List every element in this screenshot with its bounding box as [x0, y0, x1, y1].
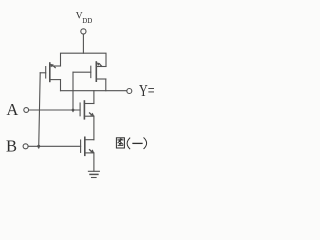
Q3 source lead [84, 115, 94, 117]
Q3 gate bar [79, 103, 81, 116]
transistor Q1 PMOS (gate=B) [40, 63, 60, 81]
svg-text:DD: DD [82, 17, 92, 25]
input A label [6, 100, 18, 119]
Q4 source lead [85, 152, 94, 154]
Q3 drain lead [84, 103, 94, 105]
wire: Q2 drain to output node [105, 79, 107, 91]
input B terminal circle [23, 144, 28, 149]
Q4 gate bar [80, 140, 82, 152]
wire: Q1 drain to output node [60, 80, 62, 91]
Q1 channel bar [49, 63, 51, 81]
wire: VDD riser [82, 34, 84, 53]
Q2 source lead [96, 66, 106, 68]
wire: A riser to Q2 gate (crosses output wire) [72, 72, 74, 111]
wire: Q4 source to ground [93, 153, 95, 171]
transistor Q3 NMOS (gate=A) [80, 91, 94, 119]
caption 图(一) [116, 138, 146, 149]
Q1 drain lead [50, 79, 61, 81]
svg-text:Y=: Y= [139, 81, 155, 100]
Q1 source arrow [50, 64, 56, 69]
transistor Q4 NMOS (gate=B) [81, 137, 95, 155]
Q2 channel bar [95, 62, 97, 81]
wire: B input to Q4 gate [28, 145, 80, 147]
Q1 source lead [50, 65, 61, 67]
label Y= [139, 81, 155, 100]
Q2 source arrow [97, 63, 103, 68]
output terminal circle [127, 89, 132, 94]
Q2 drain lead [96, 78, 106, 80]
wire: Q3 source to Q4 drain [93, 116, 95, 140]
Q3 source arrow [89, 112, 95, 116]
wire: output node Y [61, 90, 127, 92]
Q4 channel bar [84, 137, 86, 155]
Q3 drain riser to output [93, 91, 95, 104]
Q4 source arrow [89, 149, 95, 153]
Q1 gate lead [40, 72, 46, 74]
input A terminal circle [24, 108, 29, 113]
ground [88, 171, 99, 177]
svg-text:A: A [6, 100, 18, 119]
wire: A input to Q3 gate [29, 109, 80, 111]
input B label [6, 137, 17, 156]
Q4 drain lead [85, 139, 94, 141]
svg-text:B: B [6, 137, 17, 156]
Q3 channel bar [83, 101, 85, 119]
Q2 gate lead [73, 71, 91, 73]
Q2 gate bar [90, 66, 92, 77]
node: A junction dot [72, 109, 75, 112]
node: B junction dot [37, 145, 40, 148]
wire: VDD rail with end drops [61, 53, 107, 66]
transistor Q2 PMOS (gate=A) [73, 62, 106, 81]
VDD terminal circle [81, 29, 86, 34]
Q1 gate bar [45, 67, 47, 78]
wire: B riser to Q1 gate (crosses A wire) [39, 73, 41, 148]
power label VDD [76, 12, 93, 25]
